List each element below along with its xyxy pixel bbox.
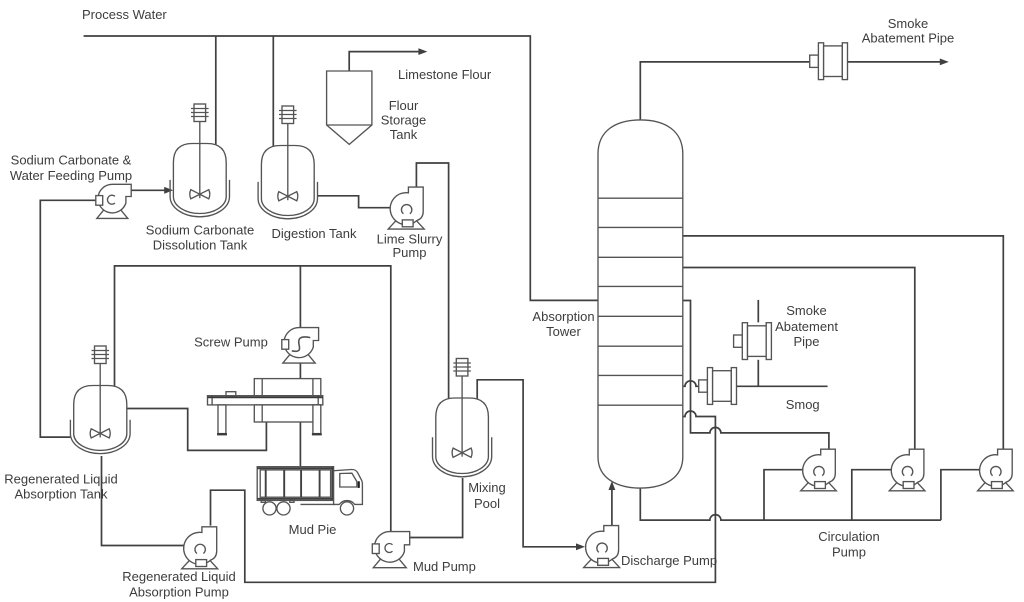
sodium carbonate and water feeding pump impeller <box>107 195 115 204</box>
filter press handle <box>226 392 236 396</box>
wire regenerated pump to absorption tower lower nozzle <box>211 411 716 582</box>
svg-text:Pipe: Pipe <box>793 334 819 349</box>
svg-text:Abatement Pipe: Abatement Pipe <box>862 31 955 46</box>
digestion tank jacket <box>258 182 317 219</box>
smoke abatement pipe top spool right flange <box>842 43 847 80</box>
wire discharge pump to tower bottom <box>611 490 613 526</box>
mud pie truck cab <box>334 469 363 504</box>
svg-text:Pump: Pump <box>393 245 427 260</box>
mixing pool tank shaft <box>461 376 463 457</box>
filter press left leg <box>218 405 226 434</box>
mud pie truck chassis <box>301 503 335 505</box>
svg-text:Circulation: Circulation <box>818 529 879 544</box>
smog spool 1 right flange <box>731 368 736 405</box>
wire screw pump to filter press <box>299 362 301 379</box>
lime slurry pump body <box>390 187 423 225</box>
circulation pump 2 suction <box>903 482 914 489</box>
wire through smoke abatement spool 2 <box>757 300 759 323</box>
regenerated liquid absorption tank motor <box>95 346 107 364</box>
filter press lower plate stack <box>254 405 320 422</box>
circulation pump 1 base <box>801 472 837 491</box>
wire smoke abatement pipe outlet arrow <box>848 61 942 63</box>
mud pie truck wheels <box>263 502 276 515</box>
svg-text:Smog: Smog <box>786 397 820 412</box>
sodium carbonate dissolution tank shaft <box>199 122 201 199</box>
filter press upper plate stack <box>254 379 320 396</box>
regenerated liquid absorption tank shaft <box>99 364 101 438</box>
digestion tank vessel <box>261 146 314 216</box>
wire manifold tee to screw pump <box>299 266 301 328</box>
svg-text:Pool: Pool <box>474 496 500 511</box>
wire regenerated tank manifold to screw pump and mud pump <box>115 266 391 532</box>
absorption tower shell <box>598 120 683 488</box>
sodium carbonate and water feeding pump suction <box>96 196 103 206</box>
svg-text:Dissolution Tank: Dissolution Tank <box>153 238 248 253</box>
digestion tank motor <box>282 106 294 124</box>
discharge pump base <box>584 548 620 568</box>
wire circulation pump 3 suction <box>941 470 980 520</box>
regenerated liquid absorption tank jacket <box>70 420 130 454</box>
svg-text:Absorption: Absorption <box>532 309 594 324</box>
regenerated liquid absorption tank impeller <box>90 429 110 438</box>
wire mixing pool to discharge pump <box>477 380 577 547</box>
wire lime slurry pump to mixing pool <box>416 163 448 403</box>
mud pump suction <box>372 544 379 554</box>
mixing pool tank motor <box>456 359 468 377</box>
wire tower top to smoke abatement pipe <box>640 62 809 121</box>
screw pump screw <box>292 337 311 351</box>
discharge pump suction <box>598 558 609 565</box>
regenerated liquid absorption pump base <box>182 549 218 569</box>
smoke abatement pipe top spool left flange <box>818 43 823 80</box>
smoke abatement pipe top spool inlet tab <box>810 55 819 67</box>
sodium carbonate dissolution tank motor <box>194 104 206 122</box>
screw pump base <box>283 344 315 364</box>
circulation pump 1 impeller <box>814 466 824 475</box>
smoke abatement pipe spool 2 right flange <box>766 323 771 360</box>
circulation pump 1 body <box>803 449 836 486</box>
wire digestion tank to lime slurry pump <box>318 196 390 208</box>
regenerated liquid absorption tank vessel <box>74 386 127 451</box>
svg-text:Sodium Carbonate: Sodium Carbonate <box>146 223 254 238</box>
wire tower to smog spool <box>683 381 699 386</box>
smog spool 1 inlet tab <box>699 380 708 392</box>
wire tower drain to circulation pump suction header <box>640 487 941 521</box>
filter press table beam <box>208 396 323 405</box>
svg-text:Regenerated Liquid: Regenerated Liquid <box>4 472 117 487</box>
digestion tank impeller <box>278 192 298 201</box>
svg-text:Process Water: Process Water <box>82 7 167 22</box>
svg-text:Discharge Pump: Discharge Pump <box>621 553 717 568</box>
svg-text:Smoke: Smoke <box>888 16 928 31</box>
wire process water main header <box>84 36 598 300</box>
wire circulation pump 2 suction <box>852 470 892 520</box>
mud pump impeller <box>385 544 393 553</box>
smoke abatement pipe spool 2 drum <box>748 326 767 357</box>
wire mud pump to mixing pool <box>410 478 463 538</box>
mud pump body <box>375 532 410 563</box>
circulation pump 2 base <box>889 472 925 491</box>
circulation pump 3 base <box>978 472 1014 491</box>
svg-text:Mixing: Mixing <box>468 480 506 495</box>
svg-text:Flour: Flour <box>389 98 419 113</box>
svg-text:Smoke: Smoke <box>786 303 826 318</box>
filter press right leg <box>313 405 321 434</box>
svg-text:Storage: Storage <box>381 113 427 128</box>
wire circulation pump 1 suction <box>764 470 803 520</box>
wire circulation pump 2 discharge to tower <box>683 268 915 449</box>
lime slurry pump suction <box>402 220 413 227</box>
svg-text:Sodium Carbonate &: Sodium Carbonate & <box>11 153 132 168</box>
wire process water drop to dissolution tank <box>215 36 217 151</box>
flour storage tank hopper <box>327 71 372 144</box>
wire process water drop to digestion tank <box>272 36 274 152</box>
svg-text:Mud Pump: Mud Pump <box>413 559 476 574</box>
screw pump body <box>284 328 319 358</box>
wire filter press to mud pie truck <box>299 422 301 467</box>
wire smog line <box>737 385 828 387</box>
wire circulation pump 1 discharge to tower <box>683 301 829 449</box>
wire feeding pump discharge to dissolution tank <box>131 189 165 191</box>
wire hopper stub and limestone flour arrow <box>349 52 420 71</box>
wire regenerated tank to filter press bottom <box>127 409 267 451</box>
svg-text:Mud Pie: Mud Pie <box>289 522 337 537</box>
smoke abatement pipe spool 2 inlet tab <box>734 335 743 347</box>
mixing pool tank jacket <box>433 437 492 477</box>
circulation pump 1 suction <box>815 482 826 489</box>
regenerated liquid absorption pump impeller <box>195 544 205 553</box>
wire regenerated tank bottom to regenerated pump <box>102 456 184 546</box>
discharge pump body <box>586 526 619 564</box>
svg-text:Absorption Pump: Absorption Pump <box>129 585 229 600</box>
mixing pool tank vessel <box>436 398 489 474</box>
svg-text:Digestion Tank: Digestion Tank <box>271 226 357 241</box>
regenerated liquid absorption pump body <box>184 527 217 565</box>
mixing pool tank impeller <box>452 448 472 457</box>
circulation pump 3 body <box>980 449 1013 486</box>
sodium carbonate dissolution tank vessel <box>173 144 226 214</box>
lime slurry pump impeller <box>401 205 411 214</box>
screw pump suction <box>282 340 289 350</box>
smoke abatement pipe spool 2 left flange <box>742 323 747 360</box>
smog spool 1 drum <box>713 371 732 402</box>
svg-text:Abatement: Abatement <box>775 319 838 334</box>
mud pie truck bed slats <box>266 470 320 497</box>
svg-text:Regenerated Liquid: Regenerated Liquid <box>122 569 235 584</box>
wire feeding pump suction from regenerated liquid absorption tank <box>40 200 96 437</box>
discharge pump impeller <box>597 543 607 552</box>
svg-text:Absorption Tank: Absorption Tank <box>15 487 108 502</box>
mud pump base <box>373 548 406 568</box>
svg-text:Limestone Flour: Limestone Flour <box>398 67 492 82</box>
circulation pump 2 body <box>891 449 924 486</box>
svg-text:Tower: Tower <box>546 324 581 339</box>
circulation pump 3 impeller <box>991 466 1001 475</box>
mud pie truck window <box>340 473 357 487</box>
smog spool 1 left flange <box>707 368 712 405</box>
smoke abatement pipe top spool drum <box>824 46 843 77</box>
lime slurry pump base <box>388 210 424 230</box>
sodium carbonate dissolution tank jacket <box>170 180 229 217</box>
svg-text:Pump: Pump <box>832 545 866 560</box>
mud pie truck bed <box>257 467 333 501</box>
absorption tower trays <box>598 198 683 405</box>
sodium carbonate dissolution tank impeller <box>190 190 210 199</box>
wire circulation pump 3 discharge to tower <box>683 236 1004 449</box>
sodium carbonate and water feeding pump base <box>97 200 128 219</box>
svg-text:Water Feeding Pump: Water Feeding Pump <box>10 168 132 183</box>
circulation pump 2 impeller <box>902 466 912 475</box>
regenerated liquid absorption pump suction <box>196 560 207 567</box>
sodium carbonate and water feeding pump body <box>98 184 131 213</box>
svg-text:Tank: Tank <box>390 127 418 142</box>
circulation pump 3 suction <box>992 482 1003 489</box>
svg-text:Screw Pump: Screw Pump <box>194 335 268 350</box>
digestion tank shaft <box>287 124 289 201</box>
